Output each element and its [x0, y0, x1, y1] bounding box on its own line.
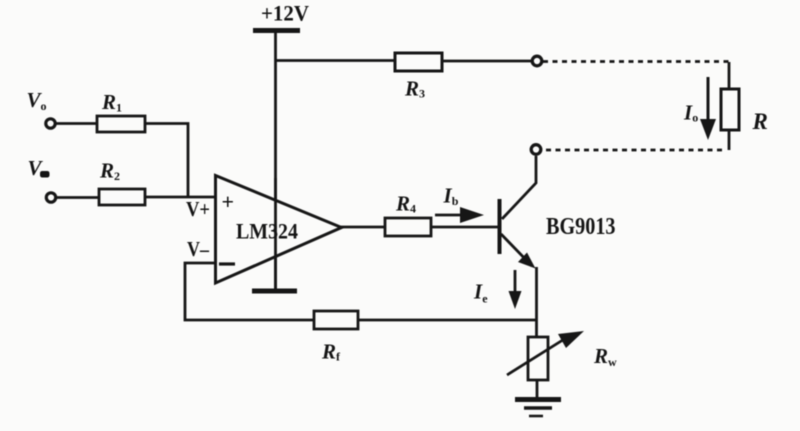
svg-text:LM324: LM324 [236, 219, 298, 244]
svg-text:R1: R1 [101, 90, 122, 115]
wire: Rf to emitter node [356, 319, 537, 322]
svg-text:Ie: Ie [473, 280, 488, 306]
terminal: collector output [531, 145, 541, 155]
wire: R2 to op-amp V+ input [143, 196, 216, 199]
wire: op-amp V- input feedback drop [185, 263, 316, 320]
wire: R1 to node above V+ [144, 124, 188, 198]
ground symbol [515, 400, 561, 417]
wire: input Vo terminal to R1 [55, 122, 99, 125]
svg-text:R4: R4 [395, 192, 416, 216]
transistor Q1 emitter arrowhead [518, 253, 536, 269]
svg-text:Rf: Rf [321, 340, 341, 364]
svg-text:R: R [752, 109, 768, 134]
svg-text:Ib: Ib [443, 184, 459, 209]
wire: op-amp output to R4 [340, 226, 386, 229]
resistor R3 [395, 53, 442, 71]
current arrow Ib [435, 207, 484, 223]
svg-text:BG9013: BG9013 [546, 214, 616, 240]
wire: R3 to top terminal [441, 60, 531, 63]
wire: dashed bottom run back to collector terminal [542, 149, 722, 152]
wire: collector lead to terminal [502, 156, 536, 219]
wire: load R to bottom corner [728, 130, 731, 150]
wire: +12V rail vertical [274, 30, 277, 291]
terminal: Vo input [46, 119, 55, 128]
transistor Q1 base bar [498, 199, 502, 254]
op-amp U1 triangle [216, 176, 342, 284]
current arrow Ie [509, 270, 522, 309]
wire: +12V rail to R3 [275, 59, 397, 62]
arrow through Rw (variable symbol) [507, 331, 584, 375]
wire: +12V rail through op-amp [274, 178, 277, 291]
svg-text:+12V: +12V [261, 1, 309, 26]
svg-text:V–: V– [187, 237, 209, 261]
wire: Rw to ground [536, 380, 539, 398]
svg-text:R2: R2 [99, 159, 120, 184]
svg-text:+: + [222, 189, 235, 214]
power bar +12V [253, 28, 300, 33]
resistor Rw (variable) [528, 337, 548, 380]
ground bar below op-amp [252, 289, 297, 294]
op-amp minus sign [219, 262, 235, 265]
wire: input Vin terminal to R2 [56, 196, 101, 199]
wire: emitter vertical through node to Rw [535, 267, 538, 338]
wire: emitter lead slant [501, 234, 532, 266]
wire: R4 to transistor base [429, 226, 499, 229]
resistor R2 [99, 189, 145, 205]
current arrow Io [700, 77, 716, 140]
svg-text:Vo: Vo [27, 88, 47, 113]
resistor R4 [385, 218, 431, 236]
svg-text:Rw: Rw [593, 344, 617, 369]
svg-text:R3: R3 [404, 77, 425, 101]
resistor R1 [97, 116, 145, 132]
resistor R (load) [721, 89, 739, 130]
terminal: top output [532, 56, 542, 66]
terminal: Vin input [46, 193, 55, 202]
svg-text:V+: V+ [186, 197, 210, 221]
resistor Rf [314, 311, 358, 329]
wire: right vertical into load R [728, 62, 731, 90]
svg-text:Io: Io [683, 101, 698, 125]
wire: dashed top run to load [543, 60, 729, 63]
